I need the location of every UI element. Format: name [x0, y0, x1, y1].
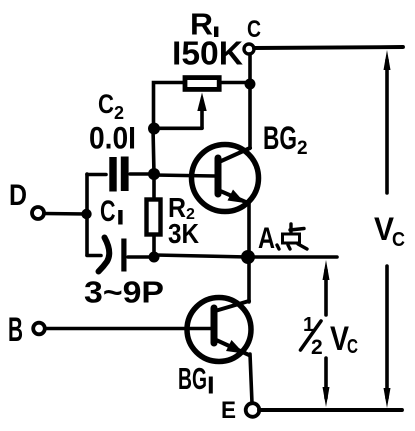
wire emitter BG2 to A	[247, 202, 251, 257]
transistor BG1	[187, 298, 251, 362]
svg-text:C: C	[247, 16, 261, 43]
transistor BG2	[192, 145, 259, 212]
measurement arrow half-Vc lower	[324, 358, 328, 398]
svg-text:2: 2	[297, 138, 308, 159]
wire left vertical branch	[85, 174, 89, 255]
node junction left	[81, 209, 91, 219]
wire C1 left lead	[87, 254, 101, 258]
wire C1 right lead	[128, 255, 154, 259]
wire base lead BG2	[154, 175, 215, 176]
resistor R2	[147, 200, 161, 235]
wire top rail	[254, 47, 403, 48]
svg-text:C: C	[392, 229, 405, 251]
node base junction	[148, 168, 160, 180]
wire bottom rail	[259, 408, 402, 412]
measurement arrow half-Vc upper	[324, 270, 328, 315]
measurement arrow Vc lower	[385, 266, 389, 398]
svg-text:C: C	[347, 336, 358, 358]
svg-text:C: C	[98, 89, 114, 119]
wire D to junction	[44, 212, 87, 216]
node wiper junction	[148, 123, 160, 135]
node collector junction	[245, 79, 256, 90]
svg-text:BG: BG	[178, 361, 207, 396]
wire C2 right lead	[130, 172, 154, 176]
wire C2 left lead	[87, 173, 106, 177]
measurement arrow Vc upper	[385, 60, 389, 193]
wire wiper horizontal	[153, 127, 202, 131]
wire C down to collector	[248, 54, 252, 148]
terminal B	[33, 323, 45, 335]
wire B to base BG1	[45, 327, 211, 331]
svg-text:E: E	[221, 397, 236, 424]
wire R1 right lead	[220, 81, 250, 85]
svg-text:0.0I: 0.0I	[89, 120, 136, 156]
wiper arrow	[197, 93, 206, 112]
potentiometer R1	[185, 78, 219, 90]
svg-text:A: A	[258, 222, 275, 255]
wire emitter BG1 to E	[250, 354, 252, 403]
svg-text:D: D	[9, 179, 27, 212]
wire R1 left branch	[154, 83, 186, 129]
svg-text:BG: BG	[263, 120, 297, 156]
svg-text:3~9P: 3~9P	[84, 275, 164, 310]
wire vertical to C2 junction	[153, 128, 154, 174]
svg-text:C: C	[100, 195, 116, 228]
capacitor C1 (trimmer curved plate)	[99, 238, 110, 272]
svg-text:I50K: I50K	[172, 35, 243, 72]
capacitor C2	[109, 157, 116, 192]
terminal E	[246, 403, 260, 417]
terminal C	[244, 44, 254, 54]
wire A down to BG1 collector	[247, 257, 251, 302]
label dian (Chinese char)	[277, 224, 307, 249]
svg-text:3K: 3K	[168, 218, 199, 249]
terminal D	[32, 207, 44, 219]
svg-text:B: B	[8, 311, 23, 349]
wire R2 vertical	[152, 174, 156, 197]
wire wiper vertical	[200, 107, 204, 128]
wire A to measurement	[155, 255, 248, 257]
node C1 junction	[149, 252, 160, 263]
svg-text:2: 2	[311, 336, 323, 359]
node A	[241, 250, 255, 264]
